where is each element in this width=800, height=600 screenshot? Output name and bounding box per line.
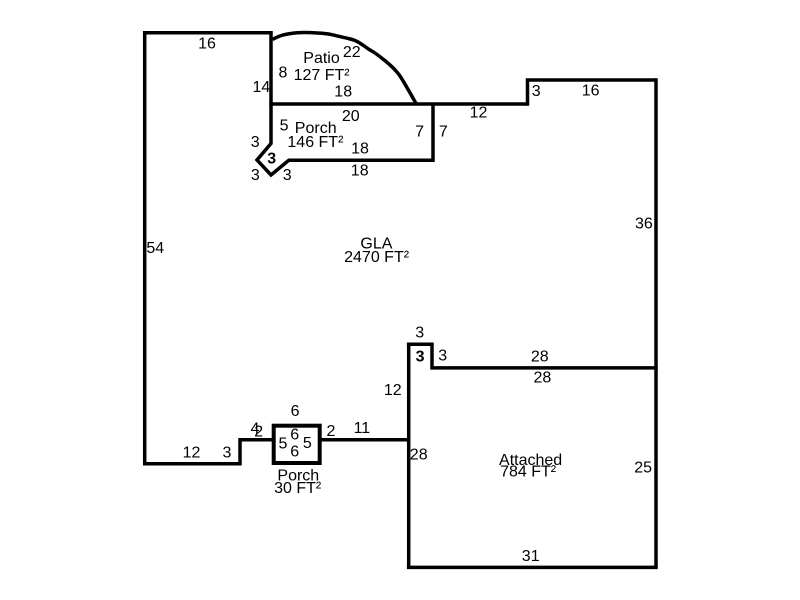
svg-text:3: 3: [251, 134, 260, 151]
svg-text:3: 3: [415, 325, 424, 342]
svg-text:2: 2: [326, 423, 335, 440]
wall garage bottom 31: [407, 566, 658, 570]
wall notch right 3 + garage top 28: [432, 343, 658, 368]
svg-text:11: 11: [354, 420, 371, 437]
wall notch top 3: [407, 343, 432, 347]
svg-text:12: 12: [470, 105, 488, 122]
svg-text:7: 7: [439, 124, 448, 141]
svg-text:3: 3: [438, 348, 447, 365]
svg-text:3: 3: [267, 151, 276, 168]
svg-text:6: 6: [291, 403, 300, 420]
svg-text:5: 5: [303, 435, 312, 452]
wall patio/porch left + diamond notch + porch bottom + porch right: [257, 31, 433, 175]
wall garage left 12 + 28: [407, 344, 411, 567]
svg-text:146 FT²: 146 FT²: [287, 134, 344, 151]
svg-text:3: 3: [283, 167, 292, 184]
svg-text:3: 3: [532, 83, 541, 100]
svg-text:6: 6: [290, 443, 299, 460]
svg-text:127 FT²: 127 FT²: [294, 67, 351, 84]
svg-text:3: 3: [251, 167, 260, 184]
svg-text:31: 31: [522, 548, 540, 565]
svg-text:18: 18: [351, 140, 369, 157]
wall step up 3 + top right 16: [528, 80, 657, 106]
patio arc 22: [273, 33, 417, 104]
porch 30 box: [274, 426, 320, 463]
svg-text:5: 5: [280, 117, 289, 134]
svg-text:784 FT²: 784 FT²: [500, 463, 557, 480]
svg-text:28: 28: [534, 369, 552, 386]
svg-text:12: 12: [384, 382, 402, 399]
svg-text:20: 20: [342, 108, 360, 125]
svg-text:16: 16: [582, 83, 600, 100]
wall right 36 + 25: [654, 78, 658, 567]
svg-text:14: 14: [253, 79, 271, 96]
wall segment 2/11 to garage: [320, 438, 409, 442]
svg-text:30 FT²: 30 FT²: [274, 480, 322, 497]
svg-text:12: 12: [183, 444, 201, 461]
wall left 54 + top 16 (GLA west and north walls): [145, 33, 271, 464]
svg-text:28: 28: [410, 447, 428, 464]
svg-text:5: 5: [279, 436, 288, 453]
svg-text:18: 18: [334, 84, 352, 101]
svg-text:2: 2: [254, 424, 263, 441]
svg-text:8: 8: [279, 65, 288, 82]
svg-text:22: 22: [343, 44, 361, 61]
svg-text:3: 3: [222, 445, 231, 462]
svg-text:Patio: Patio: [303, 50, 340, 67]
svg-text:28: 28: [531, 349, 549, 366]
svg-text:36: 36: [635, 216, 653, 233]
wall horizontal y=104 (patio bottom 18 / porch top 20 / GLA top 12): [269, 102, 527, 106]
svg-text:54: 54: [146, 240, 164, 257]
svg-text:16: 16: [198, 36, 216, 53]
wall bottom-left 12 + step 3 + 4 segment: [143, 440, 274, 464]
svg-text:7: 7: [415, 124, 424, 141]
svg-text:2470 FT²: 2470 FT²: [344, 249, 410, 266]
svg-text:25: 25: [634, 460, 652, 477]
svg-text:6: 6: [290, 426, 299, 443]
svg-text:18: 18: [351, 163, 369, 180]
svg-text:3: 3: [416, 349, 425, 366]
